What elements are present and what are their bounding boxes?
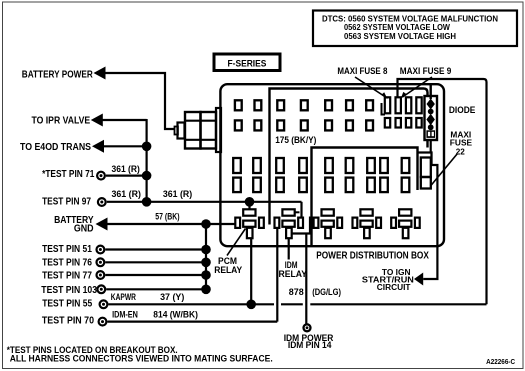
svg-text:TO IPR VALVE: TO IPR VALVE — [32, 115, 91, 126]
svg-text:IDM-EN: IDM-EN — [112, 309, 138, 319]
svg-text:ALL HARNESS CONNECTORS VIEWED: ALL HARNESS CONNECTORS VIEWED INTO MATIN… — [10, 354, 273, 364]
svg-text:MAXI FUSE 9: MAXI FUSE 9 — [400, 66, 452, 76]
svg-text:TEST PIN 97: TEST PIN 97 — [42, 197, 91, 208]
svg-text:878: 878 — [289, 287, 304, 297]
svg-text:37 (Y): 37 (Y) — [160, 292, 184, 302]
svg-text:0563 SYSTEM VOLTAGE HIGH: 0563 SYSTEM VOLTAGE HIGH — [344, 31, 456, 41]
svg-text:A22266-C: A22266-C — [486, 357, 515, 366]
svg-text:CIRCUIT: CIRCUIT — [377, 282, 411, 292]
svg-text:MAXI FUSE 8: MAXI FUSE 8 — [337, 66, 387, 76]
svg-text:TEST PIN 76: TEST PIN 76 — [42, 258, 92, 269]
svg-text:TEST PIN 103: TEST PIN 103 — [41, 285, 97, 296]
svg-text:GND: GND — [74, 223, 94, 234]
svg-text:TEST PIN 77: TEST PIN 77 — [42, 271, 92, 282]
svg-text:RELAY: RELAY — [279, 269, 308, 279]
svg-text:TEST PIN 51: TEST PIN 51 — [42, 244, 92, 255]
svg-text:361 (R): 361 (R) — [112, 189, 141, 199]
svg-text:361 (R): 361 (R) — [163, 189, 192, 199]
svg-text:TO E4OD TRANS: TO E4OD TRANS — [20, 142, 91, 153]
svg-text:814 (W/BK): 814 (W/BK) — [153, 309, 198, 319]
svg-text:F-SERIES: F-SERIES — [228, 57, 267, 68]
svg-text:IDM PIN 14: IDM PIN 14 — [288, 340, 332, 350]
svg-text:RELAY: RELAY — [214, 265, 242, 275]
svg-text:TEST PIN 55: TEST PIN 55 — [42, 298, 92, 309]
svg-text:POWER DISTRIBUTION BOX: POWER DISTRIBUTION BOX — [316, 251, 429, 262]
svg-text:TEST PIN 70: TEST PIN 70 — [42, 315, 94, 326]
svg-text:KAPWR: KAPWR — [111, 292, 136, 302]
svg-text:DIODE: DIODE — [449, 105, 476, 115]
svg-text:*TEST PIN 71: *TEST PIN 71 — [42, 169, 95, 180]
svg-text:57 (BK): 57 (BK) — [155, 211, 179, 221]
svg-text:(DG/LG): (DG/LG) — [312, 287, 341, 297]
svg-text:361 (R): 361 (R) — [112, 164, 140, 174]
svg-text:BATTERY POWER: BATTERY POWER — [22, 69, 94, 80]
svg-text:175 (BK/Y): 175 (BK/Y) — [275, 135, 316, 145]
